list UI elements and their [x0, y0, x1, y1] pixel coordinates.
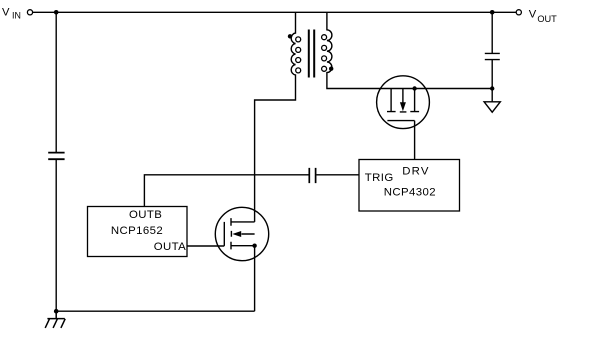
capacitor trigger coupling	[309, 168, 315, 183]
svg-text:NCP1652: NCP1652	[111, 225, 163, 237]
transformer T1 core	[309, 30, 314, 78]
transistor Q1 gate	[223, 222, 225, 246]
transistor Q2 sync rectifier circle	[377, 76, 430, 129]
svg-text:V: V	[2, 6, 10, 18]
transistor Q2 gate	[387, 121, 414, 160]
svg-text:TRIG: TRIG	[365, 172, 394, 184]
transformer T1 secondary winding	[327, 12, 492, 88]
node VOUT terminal	[516, 10, 521, 15]
ground chassis primary	[45, 311, 65, 328]
wire Q1 source to bottom rail	[254, 246, 256, 312]
transformer T1 secondary phase dot	[329, 67, 333, 71]
wire OUTB to cap	[144, 175, 308, 207]
node junction dot output return	[490, 86, 494, 90]
svg-text:OUT: OUT	[537, 14, 557, 24]
svg-text:V: V	[529, 9, 537, 21]
node junction dot Q1 source	[252, 244, 256, 248]
transformer T1 primary phase dot	[288, 34, 292, 38]
wire bottom rail	[56, 310, 254, 312]
transistor Q1 drain terminal	[231, 218, 255, 226]
IC U2 NCP4302 box	[359, 160, 460, 212]
wire OUTA to gate	[187, 245, 224, 247]
transistor Q1 body arrow	[231, 231, 254, 237]
capacitor input bulk	[48, 153, 64, 160]
transistor Q2 body arrow	[400, 89, 407, 112]
wire left vertical drop	[55, 12, 57, 311]
transistor Q2 source terminal	[410, 89, 419, 112]
node junction dot right rail	[490, 10, 495, 15]
ground output triangle	[491, 89, 493, 102]
node VIN terminal	[27, 10, 32, 15]
wire top rail	[33, 11, 516, 13]
capacitor output	[485, 12, 500, 88]
svg-text:IN: IN	[12, 11, 21, 21]
svg-text:OUTB: OUTB	[129, 209, 162, 221]
IC U1 NCP1652 box	[88, 207, 188, 257]
transistor Q1 primary switch circle	[215, 207, 268, 260]
transformer T1 secondary loop hooks	[322, 35, 327, 40]
svg-text:OUTA: OUTA	[154, 241, 186, 253]
node junction dot left rail	[54, 10, 59, 15]
node junction dot bottom left	[54, 309, 59, 314]
node junction dot Q2 source	[412, 86, 416, 90]
wire cap to TRIG	[316, 174, 359, 176]
transformer T1 primary loop hooks	[296, 37, 301, 42]
transformer T1 primary winding	[255, 12, 296, 222]
svg-text:DRV: DRV	[402, 166, 429, 178]
transistor Q1 source terminal	[231, 242, 255, 250]
transistor Q2 drain terminal	[387, 89, 396, 112]
svg-text:NCP4302: NCP4302	[384, 187, 436, 199]
